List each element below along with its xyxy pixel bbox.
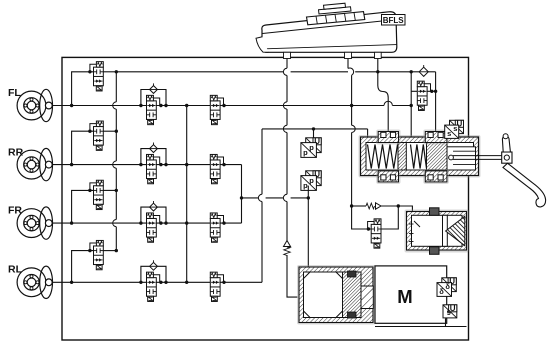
wire circuit-2 line	[242, 196, 310, 199]
wire outlet-valve 1 left loop	[70, 70, 94, 107]
wire FL wheel to block	[52, 105, 72, 107]
wheel brake RR	[8, 147, 53, 181]
wire outlet-valve 2 right	[103, 130, 118, 133]
svg-text:BFLS: BFLS	[383, 16, 405, 25]
svg-text:s: s	[447, 129, 451, 138]
inlet valve row 1	[147, 95, 160, 124]
wire outlet-valve 3 left loop	[70, 189, 94, 225]
svg-text:p: p	[303, 148, 308, 157]
wire outlet-valve 2 left loop	[70, 130, 94, 167]
svg-text:FR: FR	[8, 205, 22, 217]
MC bottom flange A	[376, 169, 400, 184]
svg-text:p: p	[303, 181, 308, 190]
MC port B block	[423, 130, 449, 145]
MC secondary spring	[411, 145, 427, 169]
wheel brake FR	[8, 205, 53, 240]
wire sim valve right	[381, 206, 398, 229]
svg-text:FL: FL	[8, 87, 21, 99]
wire motor sensor line	[375, 319, 467, 327]
MC push-rod piston	[447, 147, 476, 170]
inlet valve row 4	[147, 272, 160, 301]
brake pedal	[502, 134, 546, 207]
separation valve row 4	[210, 272, 225, 301]
svg-text:RL: RL	[8, 264, 23, 276]
wire circuit-2 to pump	[307, 198, 309, 268]
wire RL line	[72, 281, 262, 283]
outlet valve row 1	[90, 62, 103, 91]
separation valve row 3	[210, 213, 225, 242]
wire simulator line	[352, 203, 413, 215]
wire RR down to circuit-2 line	[240, 165, 243, 200]
hop FL line over port-A feed	[384, 101, 392, 105]
wire FR line	[72, 222, 242, 224]
pedal simulator	[405, 208, 469, 255]
MC bottom flange B	[423, 169, 449, 184]
pump housing	[297, 265, 376, 325]
isolation valve	[417, 81, 437, 110]
check bypass row 3	[139, 201, 168, 225]
motor position sensor	[443, 304, 457, 318]
simulator cut valve	[367, 219, 381, 248]
wire outlet-valve 4 left loop	[70, 249, 94, 284]
wire RL riser	[258, 129, 262, 282]
check bypass row 4	[139, 260, 168, 284]
label BFLS	[382, 15, 406, 26]
inlet valve row 3	[147, 213, 160, 242]
outlet valve row 3	[90, 180, 103, 209]
wheel brake FL	[8, 87, 53, 122]
wire outlet-valve 3 right	[103, 189, 118, 192]
wire outlet-valve 4 right	[103, 249, 118, 252]
suction check valve	[284, 241, 291, 256]
reservoir ports	[284, 52, 382, 58]
wire reservoir suction line	[283, 53, 287, 242]
pedal travel sensor	[445, 120, 464, 139]
svg-text:δ: δ	[445, 282, 450, 291]
check valve to reservoir	[419, 65, 436, 76]
MC primary piston	[398, 143, 406, 171]
MC port A block	[376, 130, 400, 145]
motor angle sensor	[437, 277, 456, 296]
separation valve row 2	[210, 154, 225, 183]
wire RR line	[72, 164, 242, 166]
wire FR wheel to block	[52, 222, 72, 224]
wheel brake RL	[8, 264, 53, 299]
check bypass row 1	[139, 83, 168, 107]
wire FL line down to MC	[410, 72, 413, 139]
wire reservoir port3 to line B	[377, 53, 379, 72]
outlet valve row 2	[90, 121, 103, 150]
svg-text:δ: δ	[439, 287, 444, 296]
pressure sensor circuit 2	[301, 170, 321, 198]
wire reservoir port2 line	[348, 53, 354, 108]
wire port B down	[435, 72, 437, 132]
check bypass row 2	[139, 143, 168, 167]
svg-text:p: p	[309, 176, 314, 185]
master cylinder body	[359, 135, 481, 178]
brake fluid reservoir	[256, 3, 397, 52]
separation valve row 1	[210, 95, 225, 124]
MC secondary piston	[427, 143, 448, 171]
wire balance rail	[185, 104, 188, 284]
wire port-A feed	[378, 72, 388, 132]
wire return line B	[116, 70, 419, 73]
return chain vertical	[113, 72, 117, 251]
svg-text:9: 9	[447, 308, 451, 317]
wire outlet-valve 1 right	[103, 70, 118, 73]
svg-text:M: M	[397, 286, 412, 307]
motor M	[375, 266, 447, 323]
wire iso valve ports	[411, 90, 435, 92]
svg-text:s: s	[453, 124, 457, 133]
HCU housing outline	[62, 57, 469, 340]
MC primary spring	[368, 145, 398, 169]
pressure sensor circuit 1	[301, 129, 321, 158]
wire FR up to circuit-2 line	[241, 198, 243, 223]
wire RL wheel to block	[52, 281, 72, 283]
pump piston	[343, 271, 374, 318]
svg-text:RR: RR	[8, 147, 24, 159]
outlet valve row 4	[90, 240, 103, 269]
wire MC bypass down line	[350, 106, 371, 230]
wire RR wheel to block	[52, 164, 72, 166]
svg-text:p: p	[309, 143, 314, 152]
wire suction to pump	[287, 255, 298, 297]
wire circuit-1 line	[262, 127, 368, 140]
wire FL line	[72, 105, 412, 107]
inlet valve row 2	[147, 154, 160, 183]
push rod	[453, 156, 503, 160]
